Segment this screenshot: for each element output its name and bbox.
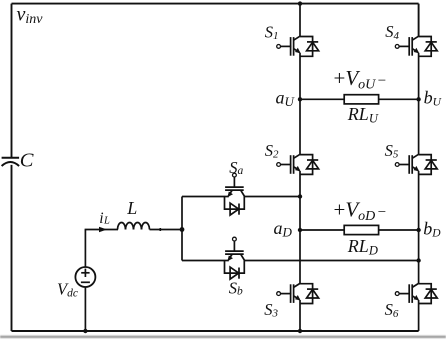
node aU junction dot [298, 97, 302, 101]
transistor Sb [225, 237, 245, 279]
wire Sa input [182, 196, 225, 198]
capacitor C [2, 158, 20, 166]
label RLD [347, 236, 378, 257]
wire aU to RLU [300, 98, 344, 100]
transistor Sa [225, 173, 245, 215]
transistor S4 [395, 36, 437, 56]
label +VoU- [334, 66, 387, 92]
wire Sb input [182, 260, 225, 262]
label aD [274, 218, 293, 240]
junction dot inductor output node [180, 227, 185, 232]
svg-text:C: C [20, 150, 34, 172]
label S6 [385, 300, 399, 320]
label Sb [229, 278, 243, 297]
label +VoD- [334, 198, 387, 224]
wire RLD to bD [379, 229, 419, 231]
label C [20, 150, 34, 172]
tick on wire [159, 228, 161, 231]
wire aD to RLD [300, 229, 344, 231]
wire a-leg: S3 to bottom rail [299, 300, 301, 331]
wire Sb output (crosses a-leg) [244, 260, 418, 262]
node bD junction dot [416, 228, 420, 232]
junction dot Sa output on a-leg [298, 194, 302, 198]
transistor S2 [277, 154, 319, 174]
wire a-leg: S1 to aU [299, 53, 301, 100]
wire b-leg: bU to S5 [418, 99, 420, 154]
transistor S3 [277, 283, 319, 303]
label iL [99, 210, 110, 227]
label S3 [264, 300, 278, 320]
transistor S6 [395, 283, 437, 303]
label bD [423, 219, 441, 240]
label aU [276, 88, 296, 110]
wire left border lower (capacitor to bottom) [11, 165, 13, 331]
wire Vdc to inductor [85, 229, 118, 231]
transistor S5 [395, 154, 437, 174]
wire b-leg: bD to S6 [418, 230, 420, 284]
wire b-leg: S4 to bU [418, 53, 420, 100]
label bU [424, 88, 442, 109]
wire a-leg: aU to S2 [299, 99, 301, 154]
grey scan artifact line at bottom [0, 336, 446, 338]
label S4 [385, 22, 399, 42]
wire left border upper (to capacitor) [11, 4, 13, 158]
wire RLU to bU [379, 98, 419, 100]
current arrow iL [99, 227, 107, 232]
label L [126, 198, 137, 218]
wire top rail [12, 3, 419, 5]
label Sa [229, 158, 243, 177]
transistor S1 [277, 36, 319, 56]
label RLU [347, 104, 379, 125]
label S1 [265, 22, 279, 42]
label Vdc [57, 280, 78, 300]
label S2 [265, 141, 279, 161]
wire b-leg: S6 to bottom rail [418, 300, 420, 331]
wire branch vertical Sa-Sb [181, 197, 183, 261]
junction dot a-leg top rail [298, 1, 302, 5]
node aD junction dot [298, 228, 302, 232]
node bU junction dot [416, 97, 420, 101]
wire a-leg: top rail to S1 [299, 4, 301, 37]
wire a-leg: S2 to aD [299, 171, 301, 230]
voltage source Vdc [75, 230, 95, 332]
wire Sa output [244, 196, 300, 198]
wire b-leg: S5 to bD [418, 171, 420, 230]
junction dot a-leg bottom rail [298, 329, 302, 333]
junction dot Sb output on b-leg [416, 258, 420, 262]
junction dot Vdc-bottom rail [83, 329, 87, 333]
wire bottom rail [12, 330, 419, 332]
label S5 [385, 141, 399, 161]
resistor RLD [344, 225, 378, 234]
resistor RLU [344, 95, 378, 104]
label v_inv [17, 4, 44, 28]
wire a-leg: aD to S3 (crosses Sb wire) [299, 230, 301, 284]
wire b-leg: top rail to S4 [418, 4, 420, 37]
inductor L [118, 223, 183, 230]
svg-text:L: L [126, 198, 137, 218]
